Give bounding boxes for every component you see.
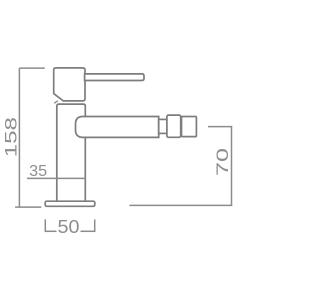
dimension 158 extension line bottom [15, 206, 41, 208]
dimension 70 extension line bottom (floor line) [129, 204, 232, 206]
dimension 50 line left segment [45, 230, 56, 232]
handle lever bar [85, 74, 144, 81]
dimension 70 extension line top [208, 126, 232, 128]
spout end cap (aerator) [182, 117, 197, 137]
handle block [54, 68, 85, 101]
spout neck [159, 119, 167, 133]
svg-text:158: 158 [2, 117, 21, 157]
dimension 35 line [27, 177, 85, 179]
svg-text:70: 70 [213, 148, 232, 176]
dimension 158 line vertical [18, 68, 20, 207]
dimension 50 line right segment [81, 230, 95, 232]
dimension 158 extension line top [19, 67, 44, 69]
base plate [45, 201, 95, 206]
spout collar [167, 115, 181, 137]
svg-text:35: 35 [29, 163, 47, 180]
dimension 50 tick left [44, 219, 46, 232]
dimension 50 tick right [94, 219, 96, 232]
svg-text:50: 50 [58, 217, 80, 237]
dimension 70 line vertical [231, 127, 233, 206]
faucet body column [57, 104, 86, 201]
spout tube [76, 117, 159, 138]
handle base bottom notch [54, 101, 58, 103]
